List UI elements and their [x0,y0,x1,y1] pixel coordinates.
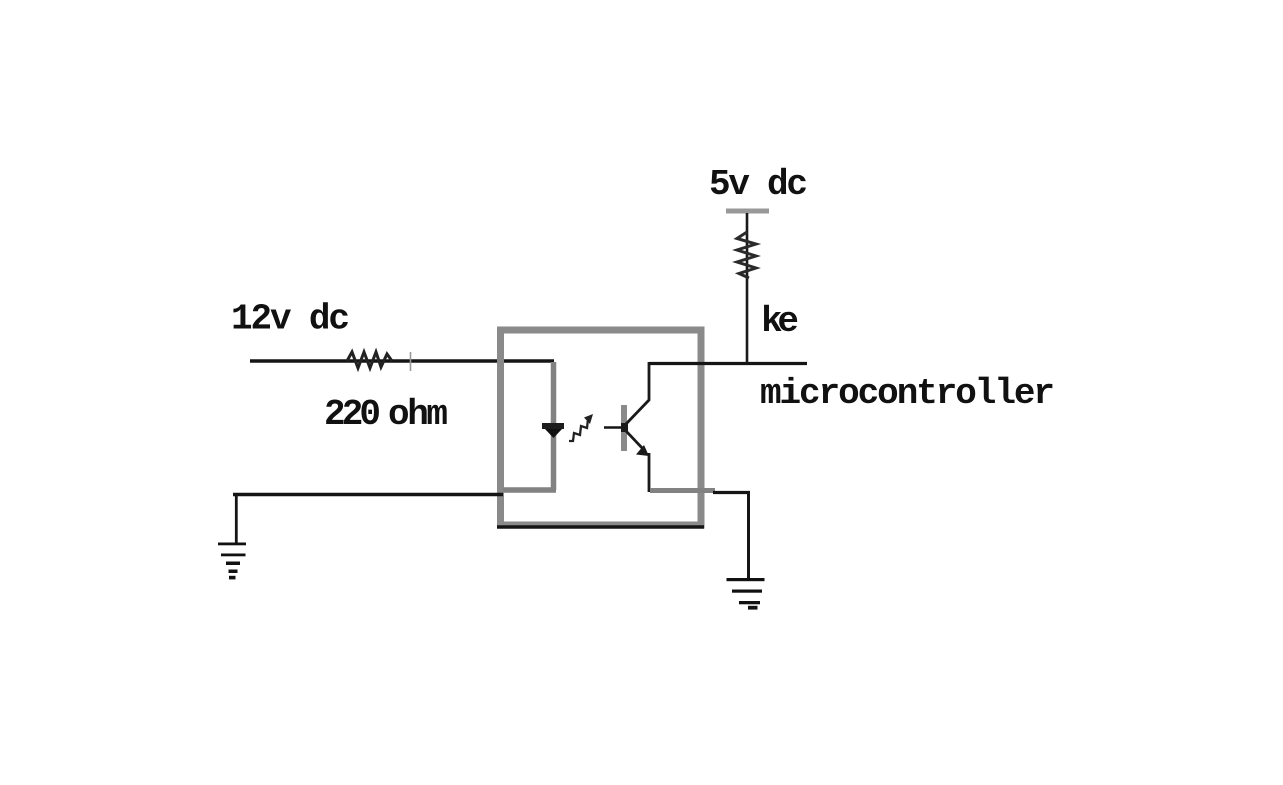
svg-text:220: 220 [324,394,381,435]
resistor R2 pull-up (vertical zigzag) [737,232,756,278]
wire: anode vertical (gray, inside box) [551,362,557,490]
wire: emitter output horizontal (black, outside box) [713,491,750,494]
svg-text:microcontroller: microcontroller [760,373,1055,414]
phototransistor Q1 collector [626,362,649,424]
wire: 5v vertical [746,213,749,363]
wire: cathode horizontal (gray, inside box) [503,487,556,493]
wire: collector output horizontal [649,362,807,365]
svg-text:5v dc: 5v dc [709,164,808,205]
junction tick on input wire [410,352,412,371]
optocoupler U1 package box [501,330,702,525]
ground GND2 (right) [727,578,765,581]
phototransistor Q1 base lead [604,426,621,429]
wire: emitter output horizontal (gray, inside box) [650,488,715,493]
light arrow (photon squiggle) [569,419,588,441]
wire: box bottom black line [497,525,704,529]
ground GND1 (left) [218,543,246,546]
wire: right ground drop vertical [747,492,750,578]
wire: left input horizontal [250,359,554,363]
LED D1 (emitter diode) [542,423,564,429]
5v supply rail bar [726,209,769,214]
svg-text:12v dc: 12v dc [231,299,350,340]
phototransistor Q1 base bar [621,405,627,451]
wire: bottom-left return horizontal [233,493,503,497]
phototransistor Q1 emitter with arrow [626,431,645,451]
wire: left ground drop vertical [235,494,238,543]
resistor R1 220 ohm (zigzag) [347,352,392,368]
svg-text:ohm: ohm [388,394,448,435]
svg-text:ke: ke [761,301,799,342]
